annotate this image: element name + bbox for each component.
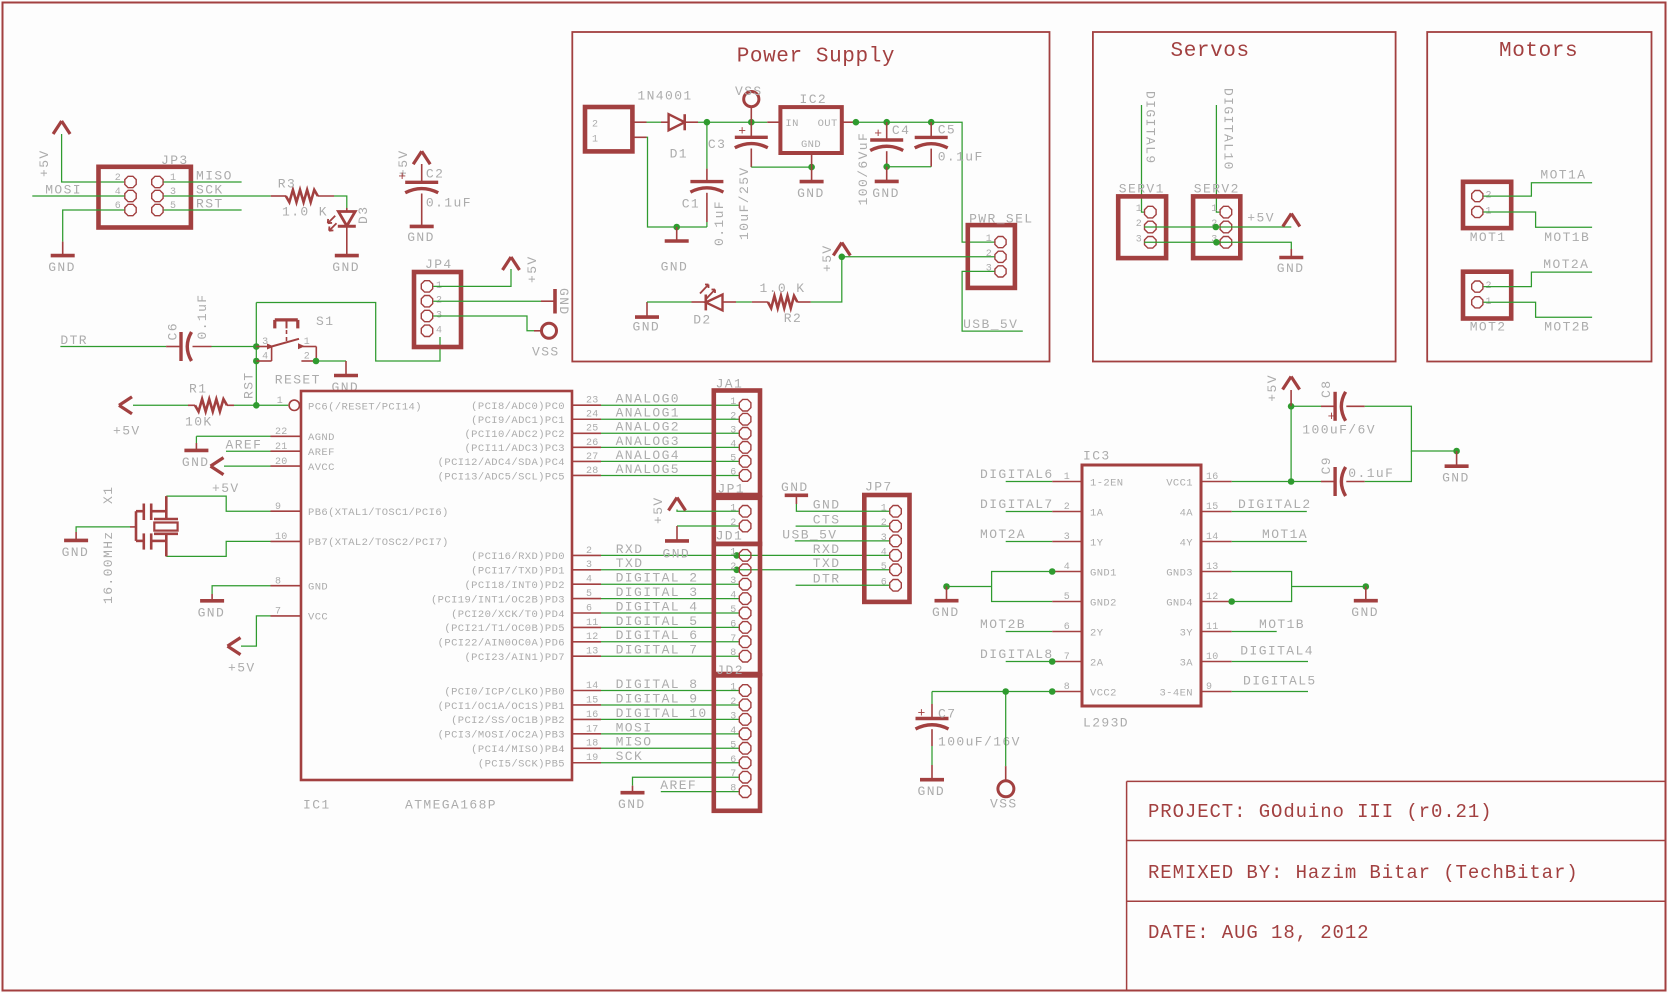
- wire VCC2: [932, 691, 1052, 693]
- IC3 pin 14 4Y: [1180, 532, 1232, 549]
- IC1 pin 20 AVCC: [271, 457, 335, 474]
- svg-text:4A: 4A: [1180, 507, 1194, 519]
- svg-text:+: +: [738, 123, 746, 138]
- svg-text:2: 2: [586, 546, 592, 557]
- IC1 pin 11 PD5: [444, 618, 601, 635]
- net MOT2A: [980, 527, 1052, 542]
- svg-text:DIGITAL 8: DIGITAL 8: [616, 677, 699, 692]
- section frame Power Supply: [572, 32, 1049, 362]
- +5V arrow AVCC: [211, 458, 271, 496]
- svg-text:2Y: 2Y: [1090, 627, 1104, 639]
- svg-text:AREF: AREF: [660, 778, 697, 793]
- svg-text:TXD: TXD: [616, 556, 644, 571]
- IC3 pin 6 2Y: [1052, 622, 1104, 639]
- svg-text:DIGITAL 3: DIGITAL 3: [616, 585, 699, 600]
- JP4 pin 2: [421, 296, 442, 307]
- net USB_5V: [782, 527, 889, 542]
- section frame Servos: [1093, 32, 1396, 362]
- svg-text:D3: D3: [356, 206, 371, 224]
- JD2 pin 5: [730, 740, 751, 754]
- svg-text:DIGITAL 6: DIGITAL 6: [616, 628, 699, 643]
- svg-text:3: 3: [730, 576, 736, 587]
- svg-text:GND: GND: [1277, 261, 1305, 276]
- svg-text:AREF: AREF: [226, 438, 263, 453]
- svg-text:2: 2: [730, 562, 736, 573]
- svg-text:IC1: IC1: [303, 798, 331, 813]
- svg-text:26: 26: [586, 438, 599, 449]
- svg-text:5: 5: [730, 605, 736, 616]
- svg-text:JP7: JP7: [865, 480, 893, 495]
- svg-text:IN: IN: [785, 118, 798, 130]
- net SCK: [601, 749, 739, 764]
- SERV1 pin 1: [1136, 204, 1156, 218]
- junction: [704, 119, 711, 126]
- wire: [811, 257, 842, 302]
- IC3 pin 5 GND2: [1052, 592, 1117, 609]
- IC3 pin 10 3A: [1180, 652, 1232, 669]
- ground: [1277, 249, 1305, 276]
- IC1 pin 26 PC3: [464, 438, 601, 455]
- svg-text:ANALOG2: ANALOG2: [616, 420, 680, 435]
- net MOT1B: [1232, 617, 1305, 632]
- net DIGITAL 7: [601, 643, 739, 658]
- JD2 pin 1: [730, 683, 751, 697]
- svg-text:3: 3: [881, 533, 887, 544]
- svg-text:1N4001: 1N4001: [637, 88, 692, 103]
- svg-text:C1: C1: [682, 197, 700, 212]
- svg-text:DIGITAL 2: DIGITAL 2: [616, 571, 699, 586]
- svg-text:6: 6: [1064, 622, 1070, 633]
- svg-text:DIGITAL5: DIGITAL5: [1243, 674, 1317, 689]
- net DIGITAL 2: [601, 571, 739, 586]
- svg-text:4: 4: [881, 547, 887, 558]
- wire servo GND: [1144, 242, 1291, 249]
- svg-text:(PCI5/SCK)PB5: (PCI5/SCK)PB5: [478, 759, 565, 771]
- IC1 pin 21 AREF: [271, 442, 335, 459]
- svg-text:10: 10: [275, 532, 288, 543]
- IC1 pin 18 PB4: [471, 739, 601, 756]
- IC1 pin 19 PB5: [478, 753, 601, 770]
- svg-text:D2: D2: [693, 312, 711, 327]
- svg-text:7: 7: [730, 634, 736, 645]
- svg-text:5: 5: [730, 740, 736, 751]
- svg-text:GND: GND: [407, 230, 435, 245]
- svg-text:GND2: GND2: [1090, 597, 1117, 609]
- junction: [1213, 239, 1220, 246]
- resistor R1: [185, 381, 234, 429]
- ground: [918, 780, 946, 800]
- wire: [334, 196, 347, 208]
- svg-text:(PCI18/INT0)PD2: (PCI18/INT0)PD2: [464, 580, 565, 592]
- net SCK wire: [164, 183, 271, 198]
- net DIGITAL2: [1232, 497, 1312, 512]
- svg-text:GND: GND: [48, 260, 76, 275]
- crystal X1: [101, 486, 178, 604]
- svg-text:27: 27: [586, 452, 599, 463]
- JP3 pin 1: [152, 173, 177, 188]
- svg-text:2: 2: [592, 120, 598, 131]
- svg-text:2: 2: [986, 249, 992, 260]
- svg-text:6: 6: [730, 619, 736, 630]
- IC1 pin 27 PC4: [438, 452, 601, 469]
- svg-text:1.0 K: 1.0 K: [760, 281, 806, 296]
- svg-text:1: 1: [304, 337, 310, 348]
- SERV1 pin 2: [1136, 219, 1156, 233]
- svg-text:VSS: VSS: [735, 84, 763, 99]
- IC1 pin 6 PD4: [451, 603, 601, 620]
- svg-text:4: 4: [730, 591, 736, 602]
- ground: [618, 777, 739, 812]
- svg-text:10K: 10K: [185, 415, 213, 430]
- LED D3: [328, 206, 371, 256]
- wire: [433, 316, 534, 331]
- junction: [253, 358, 260, 365]
- svg-text:20: 20: [275, 457, 288, 468]
- svg-text:6: 6: [730, 467, 736, 478]
- net MOT2B: [980, 617, 1052, 632]
- wire: [887, 166, 932, 168]
- title Motors: [1499, 40, 1578, 63]
- IC1 pin 3 PD1: [471, 560, 601, 577]
- wire pin16 +5V: [1232, 481, 1321, 483]
- svg-text:+5V: +5V: [113, 423, 141, 438]
- svg-text:1: 1: [881, 503, 887, 514]
- net DIGITAL4: [1232, 644, 1314, 662]
- ground IC1 GND: [198, 586, 271, 621]
- svg-text:ANALOG1: ANALOG1: [616, 406, 680, 421]
- svg-text:(PCI21/T1/OC0B)PD5: (PCI21/T1/OC0B)PD5: [444, 623, 565, 635]
- junction: [1049, 568, 1056, 575]
- JP7 pin 6: [881, 577, 902, 591]
- svg-text:GND: GND: [801, 139, 821, 151]
- wire: [647, 121, 662, 123]
- IC IC1 body: [301, 391, 572, 813]
- svg-text:0.1uF: 0.1uF: [426, 196, 472, 211]
- JP3 pin 2: [115, 173, 137, 188]
- svg-text:6: 6: [881, 577, 887, 588]
- svg-text:ANALOG3: ANALOG3: [616, 434, 680, 449]
- capacitor C6: [166, 293, 212, 361]
- svg-text:SCK: SCK: [616, 749, 644, 764]
- net DIGITAL10: [601, 706, 739, 721]
- svg-text:AVCC: AVCC: [308, 462, 335, 474]
- svg-text:+: +: [874, 126, 882, 141]
- svg-text:DIGITAL6: DIGITAL6: [980, 467, 1054, 482]
- svg-text:MOT2B: MOT2B: [980, 617, 1026, 632]
- svg-text:MOT2A: MOT2A: [980, 527, 1026, 542]
- svg-text:PROJECT: GOduino III (r0.21): PROJECT: GOduino III (r0.21): [1148, 801, 1492, 823]
- net AREF: [660, 778, 739, 793]
- svg-text:DIGITAL 10: DIGITAL 10: [616, 706, 708, 721]
- wire: [698, 121, 767, 123]
- SERV2 pin 3: [1211, 234, 1231, 248]
- net MOSI: [32, 183, 124, 198]
- JP7 pin 5: [881, 562, 902, 576]
- svg-text:5: 5: [730, 453, 736, 464]
- net ANALOG5: [601, 462, 739, 477]
- wire: [736, 301, 752, 303]
- svg-text:1: 1: [277, 396, 283, 407]
- svg-text:9: 9: [1206, 682, 1212, 693]
- svg-text:(PCI12/ADC4/SDA)PC4: (PCI12/ADC4/SDA)PC4: [438, 457, 565, 469]
- net DIGITAL 3: [601, 585, 739, 600]
- net DIGITAL6: [980, 467, 1054, 482]
- svg-text:GND3: GND3: [1166, 567, 1193, 579]
- svg-text:SERV2: SERV2: [1194, 181, 1240, 196]
- junction: [313, 358, 320, 365]
- svg-text:1-2EN: 1-2EN: [1090, 477, 1124, 489]
- junction: [839, 253, 846, 260]
- svg-text:DIGITAL 7: DIGITAL 7: [616, 643, 699, 658]
- wire: [63, 210, 125, 242]
- svg-text:0.1uF: 0.1uF: [712, 200, 727, 246]
- ground: [541, 288, 571, 316]
- JP4 pin 4: [421, 325, 442, 336]
- net DTR: [796, 572, 890, 587]
- IC3 pin 3 1Y: [1052, 532, 1104, 549]
- svg-text:5: 5: [586, 589, 592, 600]
- wire: [316, 360, 346, 362]
- svg-text:11: 11: [586, 618, 599, 629]
- svg-text:GND: GND: [918, 784, 946, 799]
- IC1 pin 28 PC5: [438, 466, 601, 483]
- svg-text:8: 8: [1064, 682, 1070, 693]
- svg-text:2: 2: [1136, 219, 1142, 230]
- JD1 pin 7: [730, 634, 751, 648]
- net ANALOG0: [601, 392, 739, 407]
- svg-text:REMIXED BY: Hazim Bitar (TechB: REMIXED BY: Hazim Bitar (TechBitar): [1148, 862, 1579, 884]
- svg-text:4: 4: [730, 439, 736, 450]
- wire: [433, 269, 511, 286]
- +5V symbol: [503, 255, 541, 283]
- svg-text:3Y: 3Y: [1180, 627, 1194, 639]
- ground: [1351, 587, 1379, 621]
- svg-text:GND: GND: [556, 288, 571, 316]
- net DIGITAL8: [601, 677, 739, 692]
- svg-text:MOT1B: MOT1B: [1259, 617, 1305, 632]
- svg-text:Motors: Motors: [1499, 40, 1578, 63]
- net DIGITAL9: [1142, 91, 1158, 212]
- JD2 pin 3: [730, 711, 751, 725]
- net DIGITAL5: [1232, 674, 1317, 692]
- JP1 pin 2: [730, 518, 751, 532]
- net DIGITAL8: [980, 647, 1055, 665]
- svg-text:GND: GND: [308, 582, 328, 594]
- net MOT2A: [1484, 257, 1593, 287]
- svg-text:2: 2: [304, 352, 310, 363]
- IC3 pin 11 3Y: [1180, 622, 1232, 639]
- svg-text:24: 24: [586, 410, 599, 421]
- IC2 regulator: [767, 92, 855, 167]
- JP4 pin 1: [421, 281, 442, 292]
- svg-text:4: 4: [586, 575, 592, 586]
- JP3 pin 3: [152, 187, 177, 202]
- ground: [332, 361, 360, 395]
- net DIGITAL 6: [601, 628, 739, 643]
- IC1 pin 15 PB1: [438, 695, 601, 712]
- IC1 pin 25 PC2: [464, 424, 601, 441]
- svg-text:VCC2: VCC2: [1090, 687, 1117, 699]
- svg-text:IC3: IC3: [1083, 449, 1111, 464]
- IC1 pin 7 VCC: [271, 607, 329, 624]
- svg-text:14: 14: [1206, 532, 1219, 543]
- svg-text:4: 4: [262, 352, 268, 363]
- JP1 pin 1: [730, 503, 751, 517]
- JD1 pin 6: [730, 619, 751, 633]
- JP7 pin 1: [881, 503, 902, 517]
- net label RXD: [813, 542, 841, 557]
- wire: [647, 137, 707, 227]
- IC1 pin 2 PD0: [471, 546, 601, 563]
- svg-text:ATMEGA168P: ATMEGA168P: [405, 798, 497, 813]
- junction: [673, 224, 680, 231]
- wire: [62, 134, 124, 182]
- svg-text:2A: 2A: [1090, 657, 1104, 669]
- svg-text:VSS: VSS: [990, 797, 1018, 812]
- svg-text:15: 15: [1206, 502, 1219, 513]
- SERV2 pin 2: [1211, 219, 1231, 233]
- net MISO: [601, 735, 739, 750]
- header JP1: [714, 482, 760, 544]
- svg-text:GND: GND: [813, 498, 841, 513]
- junction: [1288, 403, 1295, 410]
- svg-text:DIGITAL 4: DIGITAL 4: [616, 599, 699, 614]
- svg-text:2: 2: [730, 411, 736, 422]
- +5V symbol: [1265, 374, 1300, 406]
- JP7 pin 4: [881, 547, 902, 561]
- IC3 pin 16 VCC1: [1166, 472, 1232, 489]
- svg-text:JP3: JP3: [161, 153, 189, 168]
- IC1 pin 4 PD2: [464, 575, 601, 592]
- svg-text:C5: C5: [938, 122, 956, 137]
- svg-text:MISO: MISO: [196, 169, 233, 184]
- ground: [781, 480, 889, 513]
- IC3 pin 12 GND4: [1166, 592, 1232, 609]
- svg-text:1: 1: [730, 503, 736, 514]
- svg-text:CTS: CTS: [813, 513, 841, 528]
- svg-text:+5V: +5V: [212, 481, 240, 496]
- svg-text:JD1: JD1: [716, 528, 744, 543]
- svg-text:13: 13: [586, 647, 599, 658]
- JD2 pin 7: [730, 769, 751, 783]
- svg-text:5: 5: [1064, 592, 1070, 603]
- svg-text:IC2: IC2: [800, 92, 828, 107]
- svg-text:(PCI23/AIN1)PD7: (PCI23/AIN1)PD7: [464, 652, 565, 664]
- svg-text:(PCI3/MOSI/OC2A)PB3: (PCI3/MOSI/OC2A)PB3: [438, 730, 565, 742]
- svg-text:JP1: JP1: [717, 482, 745, 497]
- wire: [1365, 451, 1412, 482]
- wire: [234, 404, 288, 406]
- svg-text:(PCI20/XCK/T0)PD4: (PCI20/XCK/T0)PD4: [451, 609, 565, 621]
- wire XTAL1: [166, 496, 270, 511]
- svg-text:PWR_SEL: PWR_SEL: [969, 211, 1033, 226]
- ground: [633, 302, 661, 335]
- svg-text:18: 18: [586, 739, 599, 750]
- ground: [932, 587, 960, 621]
- svg-text:C4: C4: [892, 123, 910, 138]
- net ANALOG2: [601, 420, 739, 435]
- svg-text:11: 11: [1206, 622, 1219, 633]
- JD1 pin 1: [730, 547, 751, 561]
- svg-text:GND: GND: [781, 480, 809, 495]
- svg-text:R3: R3: [278, 176, 296, 191]
- svg-text:1: 1: [1211, 204, 1217, 215]
- svg-text:PB7(XTAL2/TOSC2/PCI7): PB7(XTAL2/TOSC2/PCI7): [308, 537, 449, 549]
- svg-text:7: 7: [275, 607, 281, 618]
- +5V symbol: [1247, 211, 1300, 227]
- svg-text:(PCI11/ADC3)PC3: (PCI11/ADC3)PC3: [464, 443, 565, 455]
- net MOSI: [601, 720, 739, 735]
- svg-text:C3: C3: [708, 137, 726, 152]
- svg-text:OUT: OUT: [818, 118, 838, 130]
- svg-text:4: 4: [436, 325, 442, 336]
- svg-text:DATE: AUG 18, 2012: DATE: AUG 18, 2012: [1148, 922, 1369, 944]
- connector MOT2: [1463, 272, 1511, 335]
- svg-text:(PCI17/TXD)PD1: (PCI17/TXD)PD1: [471, 566, 565, 578]
- header JP3: [99, 153, 191, 228]
- svg-text:MOT2B: MOT2B: [1544, 320, 1590, 335]
- svg-text:4: 4: [730, 726, 736, 737]
- svg-text:GND: GND: [663, 546, 691, 561]
- svg-text:Servos: Servos: [1171, 40, 1250, 63]
- svg-text:(PCI9/ADC1)PC1: (PCI9/ADC1)PC1: [471, 415, 565, 427]
- header JD1: [714, 528, 760, 674]
- svg-text:GND: GND: [332, 380, 360, 395]
- JD2 pin 2: [730, 697, 751, 711]
- net ANALOG3: [601, 434, 739, 449]
- junction: [883, 119, 890, 126]
- svg-text:JP4: JP4: [425, 257, 453, 272]
- svg-text:22: 22: [275, 427, 288, 438]
- svg-text:3: 3: [986, 263, 992, 274]
- svg-text:DIGITAL 5: DIGITAL 5: [616, 614, 699, 629]
- JA1 pin 5: [730, 453, 751, 467]
- net TXD: [601, 556, 889, 573]
- svg-text:1: 1: [986, 234, 992, 245]
- svg-text:C6: C6: [166, 322, 181, 340]
- diode D1: [637, 88, 698, 161]
- JA1 pin 4: [730, 439, 751, 453]
- svg-text:ANALOG5: ANALOG5: [616, 462, 680, 477]
- wire: [433, 300, 541, 302]
- IC1 pin 12 PD6: [438, 632, 601, 649]
- svg-text:DIGITAL2: DIGITAL2: [1238, 497, 1312, 512]
- svg-text:10: 10: [1206, 652, 1219, 663]
- svg-text:SCK: SCK: [196, 183, 224, 198]
- capacitor C5: [915, 122, 984, 167]
- svg-text:RESET: RESET: [275, 373, 321, 388]
- ground: [48, 242, 76, 276]
- svg-text:MOT1A: MOT1A: [1262, 527, 1308, 542]
- IC3 pin 1 1-2EN: [1052, 472, 1123, 489]
- svg-text:3: 3: [262, 337, 268, 348]
- IC1 pin 9 PB6: [271, 502, 449, 519]
- svg-text:0.1uF: 0.1uF: [195, 293, 210, 339]
- net DIGITAL10: [1216, 88, 1235, 212]
- IC1 pin 16 PB2: [451, 710, 601, 727]
- ground: [62, 527, 130, 560]
- svg-text:1: 1: [730, 397, 736, 408]
- JD2 pin 6: [730, 755, 751, 769]
- svg-text:GND: GND: [198, 605, 226, 620]
- svg-text:X1: X1: [101, 486, 116, 504]
- svg-text:ANALOG4: ANALOG4: [616, 448, 680, 463]
- svg-text:16: 16: [1206, 472, 1219, 483]
- IC1 pin 13 PD7: [464, 647, 601, 664]
- svg-text:1: 1: [1064, 472, 1070, 483]
- svg-text:SERV1: SERV1: [1119, 181, 1165, 196]
- svg-text:100/6VuF: 100/6VuF: [856, 132, 871, 206]
